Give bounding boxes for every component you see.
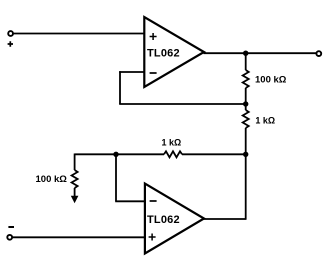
svg-text:1 kΩ: 1 kΩ (162, 138, 182, 148)
wire U1 output (204, 52, 317, 54)
svg-text:1 kΩ: 1 kΩ (255, 116, 275, 126)
node C (junction dot) (243, 152, 248, 157)
wire R2 to node C (245, 128, 247, 154)
wire R4 to arrow (74, 188, 76, 197)
wire IN+ to U1 noninverting input (13, 33, 144, 35)
U1 + input marker (150, 33, 157, 40)
label + (input plus) (8, 41, 13, 46)
wire node D down (115, 154, 117, 201)
node B (junction dot) (243, 101, 248, 106)
wire 100k branch corner down (74, 154, 76, 171)
wire feedback vertical (119, 71, 121, 104)
svg-text:TL062: TL062 (147, 214, 180, 226)
op-amp U2 (145, 184, 204, 254)
terminal IN- (7, 235, 12, 240)
wire U2 output up to node C (245, 154, 247, 220)
resistor R2 1 kOhm (vertical) (243, 110, 249, 128)
wire feedback horizontal to node B (119, 103, 246, 105)
U2 - input marker (150, 200, 157, 202)
wire IN- to U2 noninverting input (12, 236, 145, 238)
wire R1 to node B (245, 88, 247, 110)
resistor R4 100 kOhm (vertical) (72, 170, 78, 188)
terminal IN+ (8, 31, 13, 36)
wire U1 inverting input stub (119, 71, 144, 73)
svg-text:100 kΩ: 100 kΩ (255, 75, 287, 86)
label - (input minus) (8, 226, 14, 228)
resistor R3 1 kOhm (horizontal) (164, 151, 182, 157)
node A (output node junction) (243, 51, 248, 56)
terminal OUT (316, 51, 321, 56)
node D (junction dot) (113, 152, 118, 157)
resistor R1 100 kOhm (vertical) (243, 70, 249, 88)
op-amp U1 (144, 17, 204, 87)
svg-text:TL062: TL062 (147, 48, 180, 60)
svg-text:100 kΩ: 100 kΩ (36, 174, 68, 185)
wire middle horizontal left segment (75, 153, 164, 155)
wire R3 to node C (182, 153, 246, 155)
ground arrow (71, 196, 79, 204)
wire to U2 inverting input (115, 200, 145, 202)
U1 - input marker (150, 72, 157, 74)
U2 + input marker (149, 234, 156, 241)
wire U2 output (204, 218, 246, 220)
wire node A down (245, 53, 247, 70)
